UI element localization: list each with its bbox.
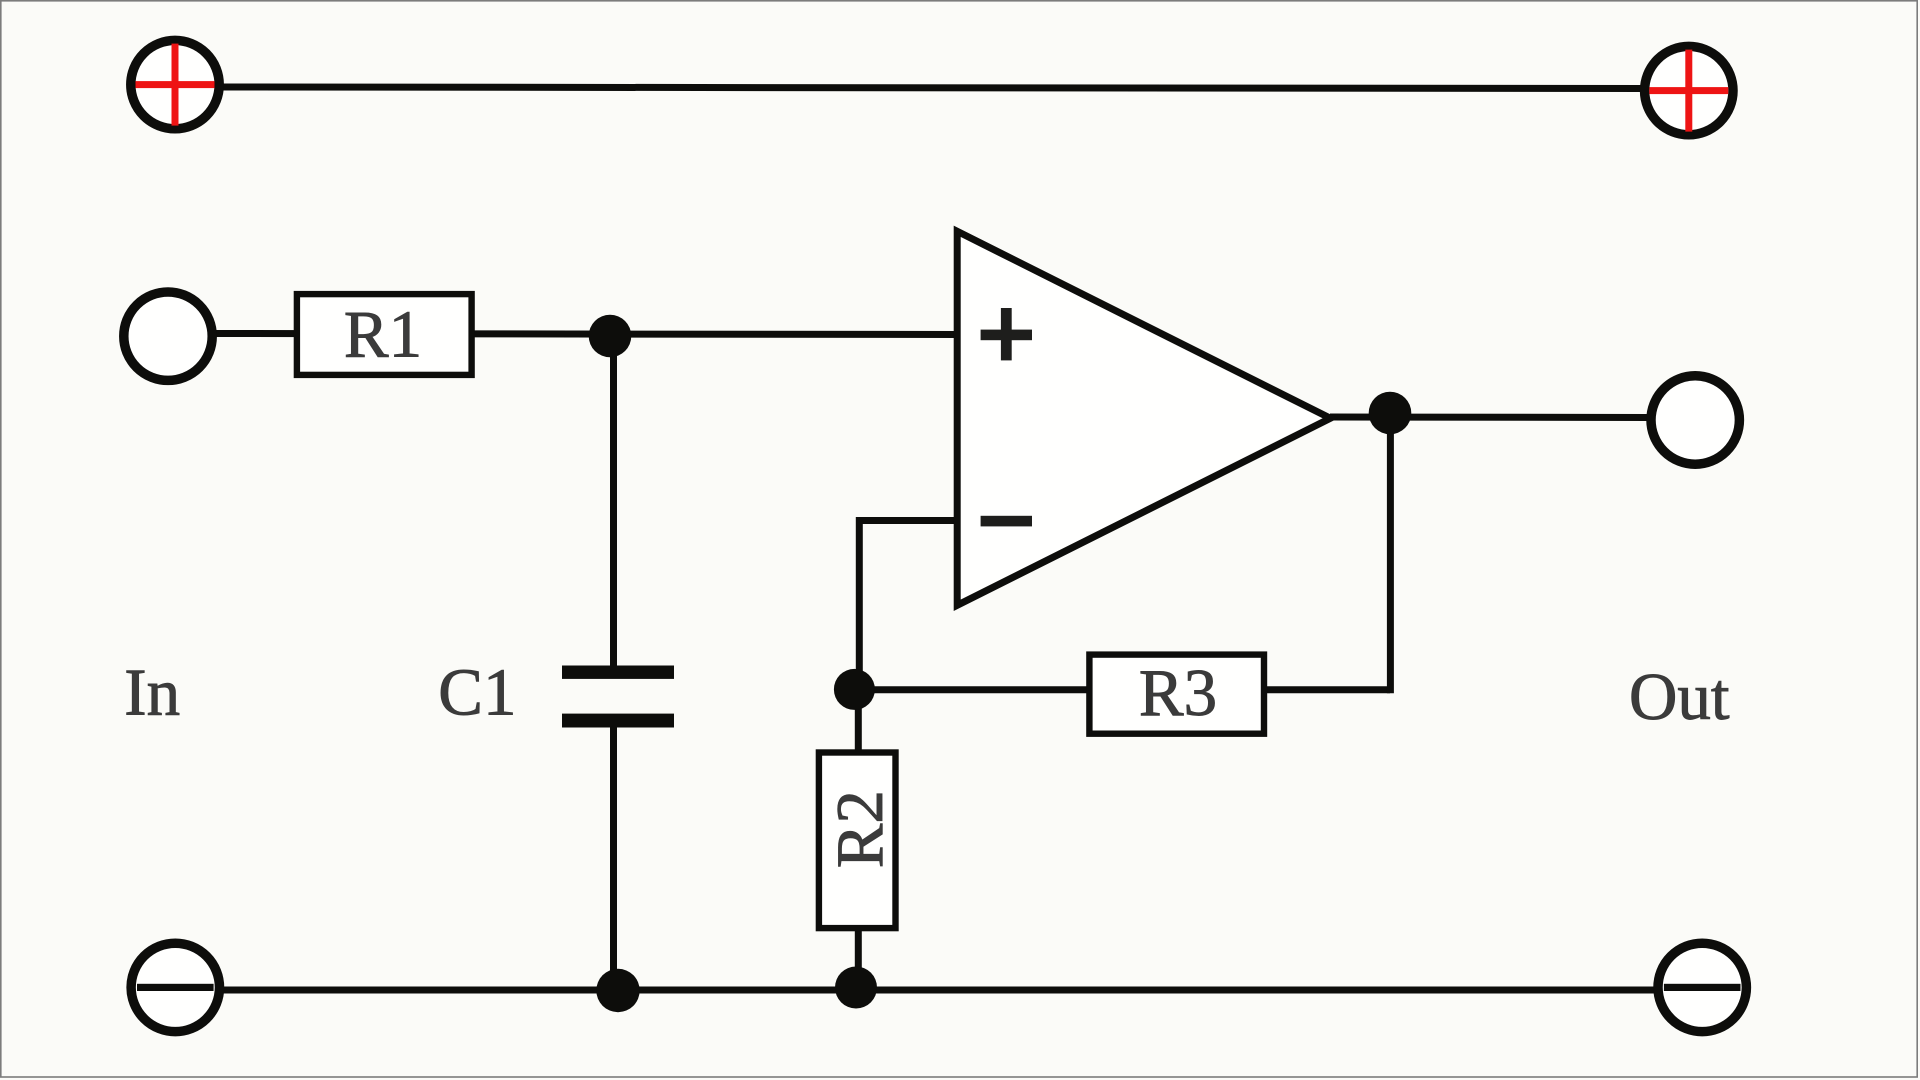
svg-text:R3: R3 xyxy=(1139,656,1217,730)
svg-text:C1: C1 xyxy=(438,656,516,730)
svg-text:R2: R2 xyxy=(823,790,897,868)
svg-text:In: In xyxy=(124,656,180,730)
svg-text:Out: Out xyxy=(1629,660,1730,734)
svg-text:R1: R1 xyxy=(344,298,422,372)
